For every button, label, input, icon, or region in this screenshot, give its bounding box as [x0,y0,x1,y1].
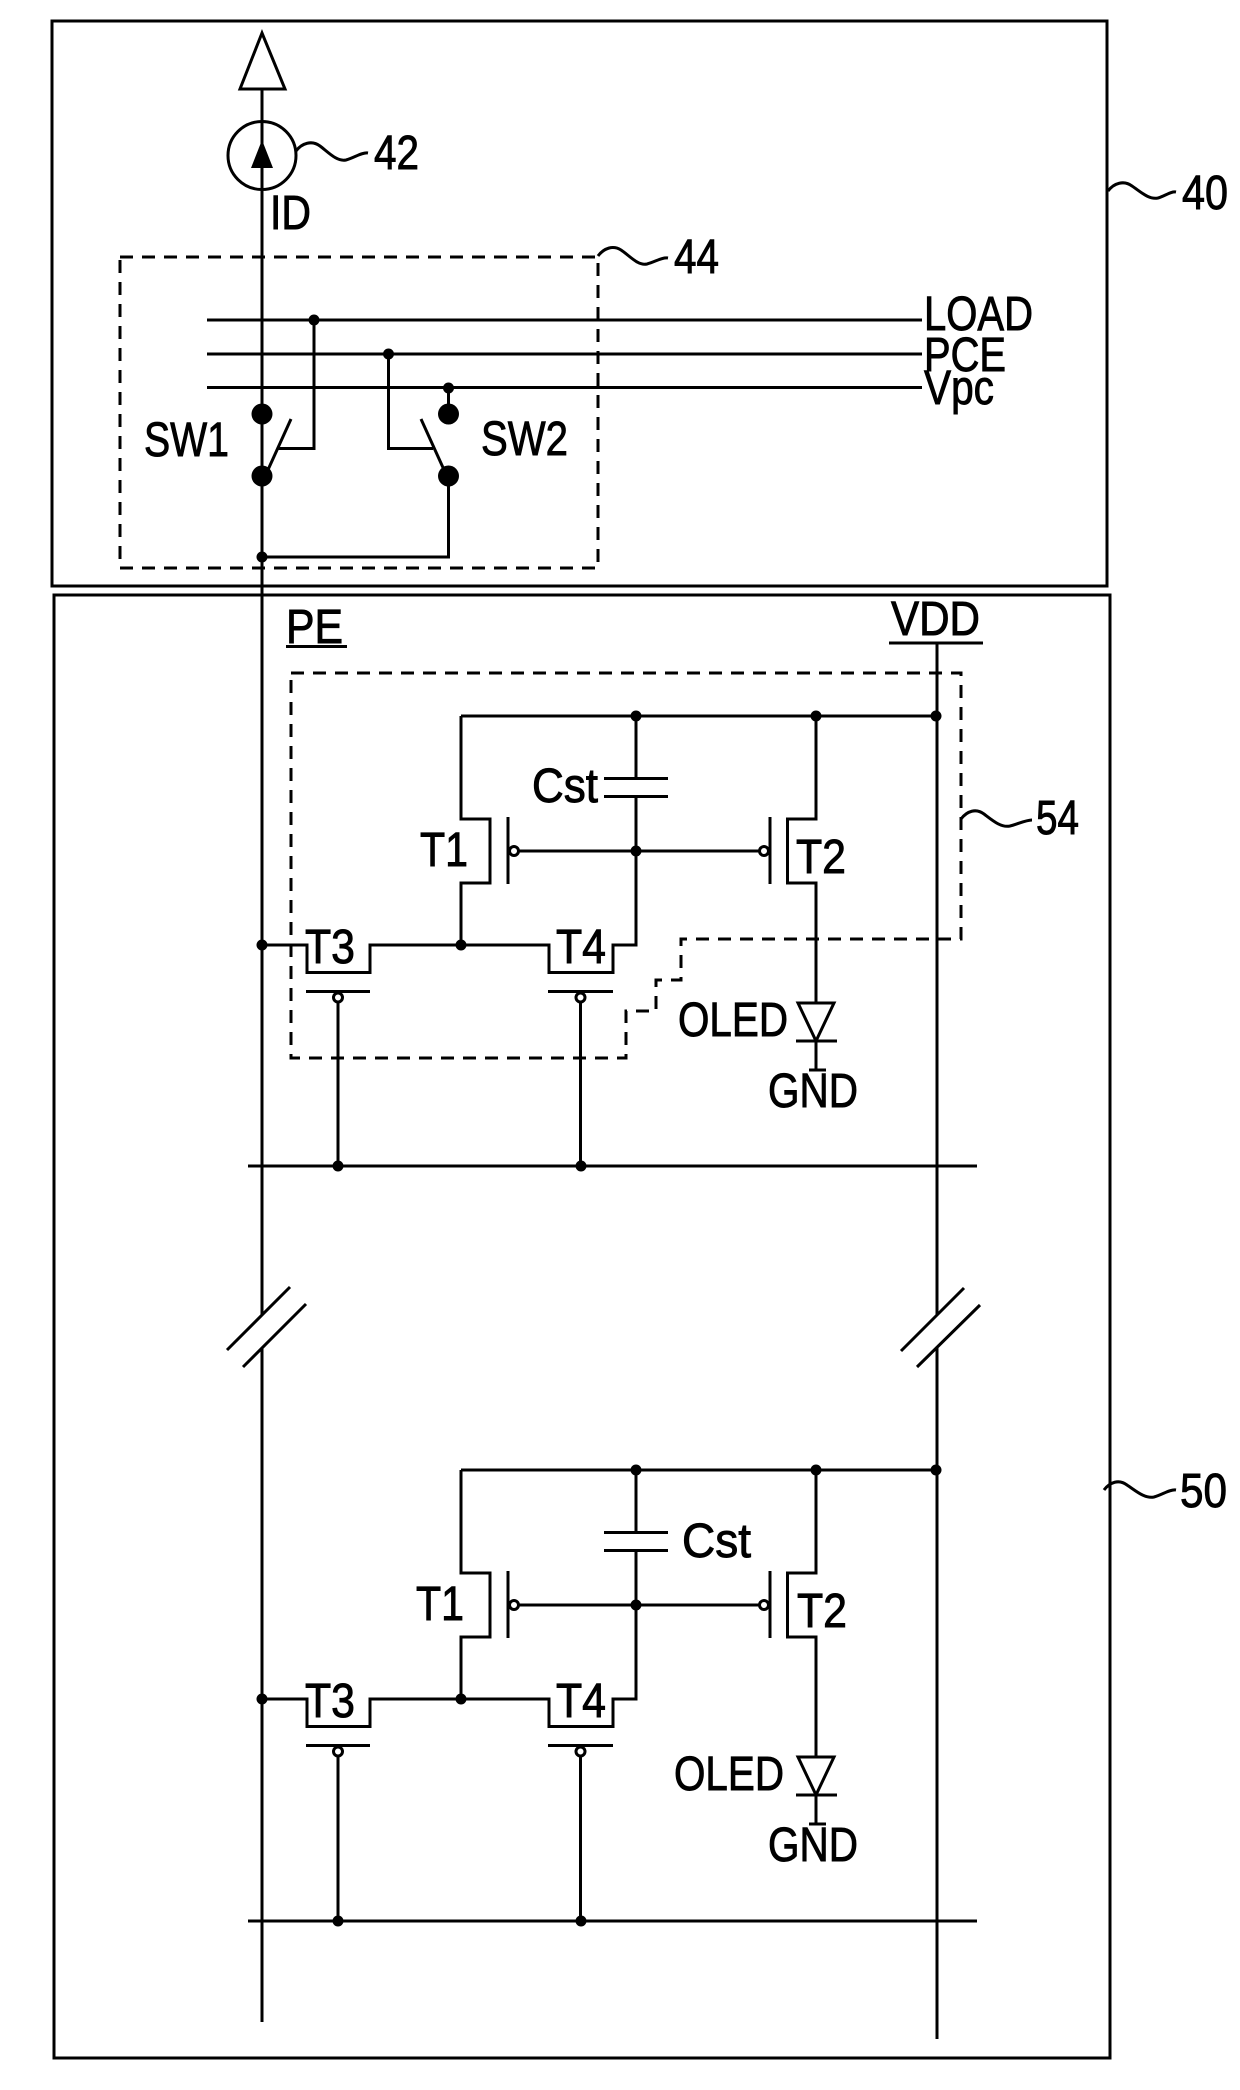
node [333,1916,344,1927]
transistor T2 (pixel 2) [760,1601,769,1610]
node [576,1916,587,1927]
svg-text:T2: T2 [797,1585,847,1638]
wire: ID column lower [261,1348,264,2022]
svg-text:40: 40 [1182,167,1228,220]
leader to 42 [296,143,368,160]
wire: sense row with T3/T4 channels (pixel 2) [262,1551,636,1727]
node on Vpc [443,383,454,394]
diode OLED (pixel 1) [798,1003,834,1041]
wire: ID column upper [261,89,264,1315]
wire: gate net 1 [519,850,760,853]
block 40 border [52,21,1107,586]
wire: scan row 1 [248,1165,977,1168]
node [631,1600,642,1611]
svg-text:T2: T2 [796,831,846,884]
svg-text:T1: T1 [420,824,468,877]
svg-text:OLED: OLED [674,1748,784,1801]
arrow: current output [240,33,285,89]
svg-text:44: 44 [674,231,719,284]
node [931,711,942,722]
node on LOAD [309,315,320,326]
wire: switch output [262,476,449,557]
pixel circuit block 54 dashed border [291,673,961,1058]
switch SW2 [438,404,459,425]
node on PCE [383,349,394,360]
node [257,1694,268,1705]
svg-text:42: 42 [374,127,419,180]
node [333,1161,344,1172]
svg-text:VDD: VDD [891,593,980,646]
transistor T4 gate (pixel 1) [548,990,613,993]
node [631,711,642,722]
transistor T2 (pixel 1) [760,847,769,856]
node [456,940,467,951]
wire: VDD rail 1 [461,715,937,718]
transistor T1 (pixel 1) [461,716,490,945]
switch block 44 dashed border [120,257,598,568]
svg-text:Cst: Cst [682,1515,751,1568]
node [257,552,268,563]
current source 42 [228,122,296,190]
wire: sense row with T3/T4 channels (pixel 1) [262,797,636,973]
svg-text:T4: T4 [556,1675,606,1728]
transistor T4 gate (pixel 2) [548,1744,613,1747]
svg-text:GND: GND [768,1819,858,1872]
wire: gate net 2 [519,1604,760,1607]
svg-text:T3: T3 [305,921,355,974]
wire LOAD [207,319,922,322]
break marks left column [227,1287,290,1350]
block 50 border [54,595,1110,2058]
svg-text:50: 50 [1180,1465,1227,1518]
transistor T3 gate (pixel 1) [306,990,370,993]
node [811,711,822,722]
diode OLED (pixel 2) [798,1757,834,1795]
leader to 40 [1108,183,1176,198]
node [456,1694,467,1705]
svg-text:54: 54 [1036,792,1079,845]
svg-text:OLED: OLED [678,994,788,1047]
node [811,1465,822,1476]
node [631,1465,642,1476]
node [931,1465,942,1476]
svg-text:SW2: SW2 [481,413,568,466]
leader to 50 [1104,1482,1176,1497]
svg-text:SW1: SW1 [144,414,229,467]
wire: Vpc to SW2 [447,388,450,414]
break marks VDD column [901,1288,964,1351]
wire Vpc [207,386,922,389]
svg-text:ID: ID [270,187,311,240]
leader to 54 [961,811,1032,826]
svg-text:Cst: Cst [532,760,598,813]
transistor T1 (pixel 2) [461,1470,490,1699]
svg-text:T4: T4 [556,921,606,974]
wire: SW2 control [389,354,434,449]
svg-text:T1: T1 [416,1578,464,1631]
svg-text:T3: T3 [305,1675,355,1728]
transistor T3 gate (pixel 2) [306,1744,370,1747]
leader to 44 [598,248,668,265]
wire: scan row 2 [248,1920,977,1923]
wire: VDD rail 2 [461,1469,937,1472]
svg-text:GND: GND [768,1065,858,1118]
wire: SW1 control [277,320,314,449]
switch SW1 [252,404,273,425]
node [576,1161,587,1172]
capacitor Cst (pixel 2) [635,1470,638,1533]
svg-text:Vpc: Vpc [924,362,994,415]
node [631,846,642,857]
wire: VDD column lower [936,1348,939,2039]
node [257,940,268,951]
wire PCE [207,353,922,356]
wire: VDD column upper [936,644,939,1315]
capacitor Cst (pixel 1) [635,716,638,779]
